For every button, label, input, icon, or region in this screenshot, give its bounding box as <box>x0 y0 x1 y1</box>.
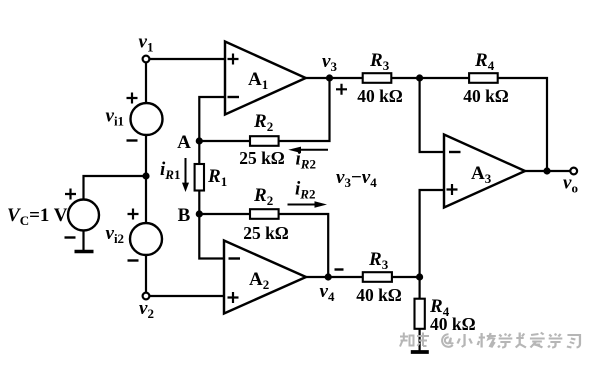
svg-text:iR2: iR2 <box>296 149 316 172</box>
wire junction to VC source <box>84 176 147 200</box>
svg-text:R3: R3 <box>369 50 390 73</box>
svg-text:vi1: vi1 <box>106 106 125 129</box>
label VC - sign <box>65 236 76 238</box>
watermark 知乎 @小杨学长爱学习 (simulated strokes) <box>400 333 580 348</box>
node B <box>196 210 203 217</box>
svg-text:40 kΩ: 40 kΩ <box>463 86 509 106</box>
wire A3 output to vo <box>525 170 570 172</box>
wire R4 bottom to ground <box>419 329 421 351</box>
svg-text:R1: R1 <box>207 166 227 189</box>
resistor R4 bottom (vertical box) <box>415 299 425 329</box>
wire vi2 to v2 <box>145 255 147 293</box>
svg-text:40 kΩ: 40 kΩ <box>430 314 476 334</box>
resistor R3 top (box) <box>363 73 392 83</box>
junction R3/R4 top <box>416 74 423 81</box>
wire A2 output to R3 bottom <box>306 276 363 278</box>
svg-text:R4: R4 <box>474 50 495 73</box>
svg-text:v3: v3 <box>322 51 337 74</box>
svg-text:v1: v1 <box>139 32 154 55</box>
svg-text:25 kΩ: 25 kΩ <box>243 223 289 243</box>
op-amp A1 <box>225 42 306 115</box>
current iR1 arrow <box>182 158 189 192</box>
minus sign of v3-v4 <box>335 268 344 270</box>
wire R1 to node B <box>198 191 200 215</box>
wire R2 bottom to node v4 <box>279 214 329 277</box>
wire R3 top to R4 top <box>391 77 469 79</box>
op-amp A3 <box>444 135 525 208</box>
ground of VC source <box>75 250 94 254</box>
svg-text:40 kΩ: 40 kΩ <box>356 285 402 305</box>
plus sign of v3-v4 <box>336 84 347 95</box>
resistor R4 top (box) <box>469 73 498 83</box>
svg-text:v3−v4: v3−v4 <box>336 167 377 190</box>
resistor R2 bottom (box) <box>250 209 279 219</box>
wire v2 to A2 + input <box>150 295 226 297</box>
svg-text:B: B <box>178 205 191 226</box>
svg-text:iR1: iR1 <box>160 159 180 182</box>
wire A1 - input to node A <box>199 97 225 141</box>
wire bottom junction to R4 bottom <box>419 277 421 299</box>
svg-text:R3: R3 <box>368 249 389 272</box>
svg-text:vi2: vi2 <box>106 223 125 246</box>
wire R2 top to node v3 <box>279 78 330 141</box>
node v2 (terminal) <box>143 293 150 300</box>
source vi2 <box>130 223 162 255</box>
node vo (terminal) <box>570 168 577 175</box>
resistor R3 bottom (box) <box>363 272 392 282</box>
ground of R4 bottom <box>411 350 429 354</box>
svg-text:25 kΩ: 25 kΩ <box>239 148 285 168</box>
wire left rail v1 to vi1 <box>145 63 147 104</box>
svg-text:v2: v2 <box>139 298 154 321</box>
resistor R2 top (box) <box>250 136 279 146</box>
svg-text:40 kΩ: 40 kΩ <box>357 86 403 106</box>
wire node A to R1 <box>198 141 200 164</box>
op-amp A2 <box>224 241 306 314</box>
label vi1 + sign <box>127 93 138 104</box>
wire R4 top to A3 output node <box>498 78 547 171</box>
wire node A to R2 top <box>199 140 250 142</box>
node v1 (terminal) <box>143 56 150 63</box>
node v3 <box>326 74 333 81</box>
svg-text:iR2: iR2 <box>295 179 315 202</box>
wire R3 bottom to bottom junction <box>392 276 420 278</box>
svg-text:vo: vo <box>563 173 578 196</box>
svg-text:R2: R2 <box>253 111 273 134</box>
svg-text:R2: R2 <box>253 185 273 208</box>
source vi1 <box>131 103 163 135</box>
wire A3 + input to bottom junction <box>420 190 444 277</box>
wire A1 output to R3 top <box>306 77 363 79</box>
label vi2 - sign <box>128 259 139 261</box>
source VC <box>68 200 99 231</box>
node v4 <box>325 273 332 280</box>
current iR2 bottom arrow (right) <box>288 201 328 207</box>
node A <box>196 137 203 144</box>
svg-text:VC=1 V: VC=1 V <box>7 205 68 228</box>
wire top junction to A3 - input <box>420 78 444 152</box>
junction R3/R4 bottom <box>416 273 423 280</box>
wire node B to A2 - input <box>199 214 225 259</box>
wire node B to R2 bottom <box>199 213 250 215</box>
node A3 output junction <box>543 167 550 174</box>
label vi1 - sign <box>127 139 138 141</box>
current iR2 top arrow (left) <box>288 147 328 153</box>
svg-text:A: A <box>177 132 191 153</box>
label vi2 + sign <box>128 209 139 220</box>
wire v1 to A1 + input <box>150 58 226 60</box>
wire vi1 to junction to vi2 <box>145 135 147 223</box>
resistor R1 (box) <box>195 164 204 191</box>
svg-text:v4: v4 <box>320 281 335 304</box>
wire VC source to ground <box>82 231 84 250</box>
junction left rail / VC tap <box>142 172 149 179</box>
label VC + sign <box>65 189 76 200</box>
